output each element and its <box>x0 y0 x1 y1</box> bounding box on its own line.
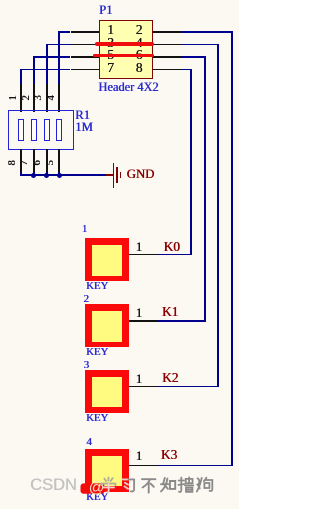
net label K1 <box>162 305 178 318</box>
key S2 pin stub <box>129 320 157 322</box>
pin stub: R1 pin 5 bottom <box>58 149 60 172</box>
red highlight bar row 5-6 <box>93 54 154 58</box>
resistor pack pin number 5 (rotated) <box>45 160 55 165</box>
key S2 comment KEY <box>86 347 108 358</box>
red highlight bar row 3-4 <box>95 42 154 46</box>
key S2 button <box>85 304 129 347</box>
key S3 pin stub <box>129 386 157 388</box>
header P1 designator <box>99 4 113 17</box>
wire: vertical net K1 <box>204 56 206 322</box>
pin number 6 <box>132 48 147 62</box>
junction dot pin5 <box>57 173 62 178</box>
pin stub: R1 pin 4 top <box>58 84 60 112</box>
key S3 designator <box>84 360 90 371</box>
resistor network R1 body box <box>8 110 74 150</box>
resistor element 2 <box>31 119 37 141</box>
ground symbol bar 2 <box>116 167 118 183</box>
R1 designator <box>75 109 90 122</box>
watermark chinese glyph strokes <box>80 472 225 500</box>
watermark CSDN <box>30 477 77 494</box>
pin stub: header pin8 <box>153 69 181 71</box>
pin stub: R1 pin 3 top <box>46 84 48 112</box>
key S4 designator <box>86 437 92 448</box>
glyph 学 lower strokes over red <box>103 484 114 493</box>
watermark red @ badge <box>81 483 105 493</box>
wire: vertical to resistor pin1 <box>20 69 22 85</box>
key S1 comment KEY <box>86 281 108 292</box>
pin stub: R1 pin 1 top <box>20 84 22 112</box>
pin stub: header pin1 <box>71 31 99 33</box>
key S1 pin number 1 <box>136 240 143 253</box>
key S4 pin number 1 <box>136 449 143 462</box>
wire: drop R1 pin 8 to bus <box>20 172 22 176</box>
key S2 designator <box>83 294 89 305</box>
pin number 5 <box>103 48 118 62</box>
pin number 2 <box>132 23 147 37</box>
key S2 pin number 1 <box>136 306 143 319</box>
wire net K3 horizontal <box>157 465 233 467</box>
junction dot pin7 <box>31 173 36 178</box>
wire: header pin3 left blue segment <box>46 44 71 46</box>
glyph 如 <box>161 478 175 491</box>
wire net K1 horizontal <box>157 320 206 322</box>
pin stub: header pin7 <box>71 69 99 71</box>
glyph 习 right strokes over cream <box>129 479 135 491</box>
glyph 狗 <box>197 478 212 492</box>
net label K3 <box>161 448 177 461</box>
wire: vertical to resistor pin4 <box>58 31 60 85</box>
ground symbol lead <box>106 174 112 176</box>
wire: header pin5 left blue segment <box>33 56 71 58</box>
resistor pack pin number 2 (rotated) <box>21 95 31 100</box>
key S1 button <box>85 238 129 281</box>
R1 value 1M <box>75 121 93 134</box>
wire: vertical to resistor pin2 <box>33 56 35 84</box>
resistor pack pin number 4 (rotated) <box>47 95 57 100</box>
connector J box body <box>99 20 153 79</box>
wire net K0 horizontal <box>157 254 192 256</box>
pin stub: header pin6 <box>153 56 181 58</box>
wire: header pin1 left blue segment <box>58 31 70 33</box>
pin stub: R1 pin 7 bottom <box>33 149 35 172</box>
wire: pin4 right blue <box>181 44 219 46</box>
wire: header pin7 left blue segment <box>20 69 70 71</box>
pin stub: R1 pin 6 bottom <box>46 149 48 172</box>
key S3 button <box>85 370 129 413</box>
resistor pack pin number 8 (rotated) <box>8 160 18 165</box>
key S1 designator <box>82 224 88 235</box>
glyph 不 <box>142 479 155 492</box>
pin number 4 <box>132 36 147 50</box>
ground symbol bar 1 <box>113 163 115 188</box>
key S4 pin stub <box>129 465 157 467</box>
glyph 习 left strokes over red edge <box>123 479 129 488</box>
wire net K2 horizontal <box>157 386 219 388</box>
key S3 pin number 1 <box>136 372 143 385</box>
resistor element 3 <box>44 119 50 141</box>
wire: drop R1 pin 6 to bus <box>46 172 48 176</box>
pin number 8 <box>132 61 147 75</box>
wire: pin8 right blue <box>181 69 192 71</box>
pin stub: header pin5 <box>71 56 99 58</box>
key S4 comment KEY <box>86 492 108 503</box>
pin stub: R1 pin 8 bottom <box>20 149 22 172</box>
resistor pack pin number 6 (rotated) <box>33 160 43 165</box>
wire: drop R1 pin 5 to bus <box>58 172 60 176</box>
glyph 学 upper strokes over yellow <box>101 478 115 486</box>
key S1 pin stub <box>129 254 157 256</box>
wire: drop R1 pin 7 to bus <box>33 172 35 176</box>
wire: vertical net K2 <box>217 44 219 388</box>
pin number 7 <box>103 61 118 75</box>
ground symbol bar 3 <box>120 172 122 178</box>
junction dot pin6 <box>44 173 49 178</box>
wire: vertical to resistor pin3 <box>46 44 48 85</box>
wire: pin6 right blue <box>181 56 206 58</box>
key S4 button <box>85 449 129 492</box>
pin stub: header pin4 <box>153 44 181 46</box>
wire: vertical net K3 <box>231 31 233 466</box>
resistor element 1 <box>18 119 24 141</box>
net label K0 <box>164 240 180 253</box>
header comment label <box>98 81 158 93</box>
key S3 comment KEY <box>86 413 108 424</box>
glyph 撸 <box>178 477 193 492</box>
GND net label <box>127 168 155 181</box>
resistor pack pin number 3 (rotated) <box>34 95 44 100</box>
pin stub: header pin2 <box>153 31 181 33</box>
pin stub: R1 pin 2 top <box>33 84 35 112</box>
resistor pack pin number 7 (rotated) <box>20 160 30 165</box>
net label K2 <box>162 371 178 384</box>
resistor pack pin number 1 (rotated) <box>9 95 19 100</box>
pin stub: header pin3 <box>71 44 99 46</box>
pin number 1 <box>103 23 118 37</box>
wire: vertical net K0 <box>190 69 192 256</box>
svg-text:@: @ <box>89 480 105 497</box>
resistor element 4 <box>56 119 62 141</box>
wire: pin2 right blue to outer vertical <box>181 31 233 33</box>
pin number 3 <box>103 36 118 50</box>
ground bus wire <box>20 174 106 176</box>
